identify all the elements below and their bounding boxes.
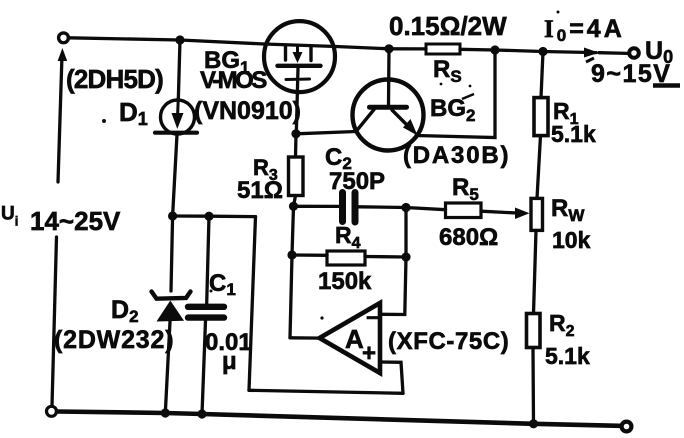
svg-text:+: + bbox=[362, 340, 376, 367]
svg-text:V-MOS: V-MOS bbox=[200, 67, 267, 94]
resistor R5 body 680ohm bbox=[446, 203, 482, 218]
wire: R5 to Rw wiper arrow bbox=[481, 211, 517, 213]
wire: left input rail with up arrow bbox=[58, 55, 62, 182]
wire: BG1 to Rs bbox=[389, 47, 426, 50]
arrow into Rw wiper bbox=[515, 208, 530, 220]
svg-text:680Ω: 680Ω bbox=[439, 224, 498, 251]
stray speck above BG2 label bbox=[440, 83, 443, 86]
node L (D1/D2 junction) bbox=[168, 211, 177, 220]
wire: R2 bottom to ground node O bbox=[531, 348, 535, 424]
stray arrow mark above BG2 label bbox=[462, 94, 474, 99]
wire: op-amp plus input right and down bbox=[380, 362, 403, 393]
wire: node H to R5 bbox=[406, 208, 446, 210]
wire: Rs right to junction C bbox=[460, 48, 495, 52]
wire: node I down and left to op-amp minus input bbox=[382, 257, 406, 315]
zener D2 triangle (anode, pointing up) bbox=[157, 301, 185, 322]
svg-text:750P: 750P bbox=[329, 168, 385, 195]
wire: op-amp output to feedback riser bbox=[290, 336, 321, 340]
wire: R4 right to node I bbox=[365, 255, 406, 259]
stray dot left of D1 bbox=[102, 119, 106, 123]
node junction C (BG2 collector / Rs right) bbox=[490, 45, 499, 54]
wire: BG1 gate lead down to junction E bbox=[296, 68, 298, 134]
node G (R4 left) bbox=[287, 250, 296, 259]
resistor R4 body 150k bbox=[327, 251, 365, 265]
node junction A (top of D1) bbox=[175, 35, 184, 44]
svg-text:5.1k: 5.1k bbox=[545, 343, 590, 369]
BG2 base bar bbox=[370, 105, 407, 110]
svg-text:51Ω: 51Ω bbox=[237, 177, 283, 204]
svg-text:14~25V: 14~25V bbox=[30, 206, 121, 236]
diode D1 body circle bbox=[161, 100, 195, 134]
svg-text:(2DW232): (2DW232) bbox=[54, 326, 174, 354]
svg-text:μ: μ bbox=[222, 348, 237, 375]
wire: BG2 emitter to riser to junction C bbox=[416, 50, 495, 138]
resistor R3 body 51ohm bbox=[289, 157, 304, 196]
op-amp A triangle bbox=[320, 303, 381, 373]
node H (C2/R5/minus-branch junction) bbox=[401, 203, 410, 212]
wire: Rw bottom to R2 top bbox=[534, 231, 537, 314]
svg-text:(2DH5D): (2DH5D) bbox=[66, 64, 163, 94]
wire: arrow to output terminal bbox=[599, 51, 628, 55]
wire: node F to C2 left plate bbox=[294, 205, 339, 208]
wire: plus branch bottom run to the left bbox=[249, 390, 403, 393]
BG1 internal: substrate dashes bbox=[286, 78, 297, 81]
capacitor C1 plates 0.01u bbox=[188, 304, 224, 310]
stray speck left of op-amp bbox=[320, 316, 323, 319]
svg-text:150k: 150k bbox=[318, 268, 372, 295]
wire: ground bus bbox=[57, 412, 620, 426]
node junction D (R1 top) bbox=[538, 47, 547, 56]
resistor Rs body 0.15ohm/2W bbox=[426, 44, 460, 54]
wire: plus branch left riser up to node J bbox=[249, 217, 256, 391]
wire: node H down to node I bbox=[404, 208, 407, 258]
stray speck near 150k bbox=[210, 290, 213, 293]
node O (R2 on ground bus) bbox=[529, 419, 538, 428]
wire: junction E to R3 bbox=[294, 134, 298, 157]
wire: node L down to D2 bbox=[171, 216, 173, 291]
BG1 internal: right gate finger bbox=[309, 46, 312, 61]
svg-text:10k: 10k bbox=[552, 227, 591, 253]
wire: R1 bottom to Rw top bbox=[537, 136, 541, 199]
capacitor C2 plates 750P bbox=[339, 193, 346, 222]
node M (D2 on ground bus) bbox=[161, 408, 170, 417]
stray speck top right bbox=[557, 11, 560, 14]
wire: D2 anode down to ground node M bbox=[165, 322, 170, 414]
potentiometer Rw body 10k bbox=[531, 198, 543, 230]
BG1 internal: middle arrow down bbox=[296, 47, 299, 55]
svg-text:0.15Ω/2W: 0.15Ω/2W bbox=[389, 11, 507, 41]
svg-text:5.1k: 5.1k bbox=[551, 121, 596, 147]
node F (C2 left) bbox=[289, 202, 298, 211]
wire: R3 bottom to node F, node G, down to op-amp output bbox=[290, 196, 296, 338]
resistor R1 body 5.1k bbox=[534, 98, 548, 136]
node junction E (gate / BG2 collector) bbox=[291, 129, 300, 138]
wire: C1 top lead bbox=[207, 216, 209, 303]
transistor BG2 body circle (DA30B) bbox=[353, 80, 424, 151]
wire: D1 cathode down to node L bbox=[173, 135, 177, 217]
node output minus terminal (open circle, bottom right) bbox=[622, 422, 632, 432]
node junction B (BG2 base on top wire) bbox=[384, 44, 393, 53]
underline mark under V bbox=[653, 83, 680, 88]
node K (C1 top) bbox=[204, 212, 213, 221]
node output terminal Uo (open circle) bbox=[629, 48, 639, 58]
arrow to output bbox=[584, 48, 599, 58]
BG1 internal: channel bar bbox=[278, 64, 321, 68]
wire: junction C to junction D bbox=[495, 50, 543, 52]
zener D2 cathode bar with bent tips bbox=[152, 292, 191, 299]
BG2 collector diagonal (to gate node) bbox=[356, 110, 374, 132]
svg-text:(DA30B): (DA30B) bbox=[403, 142, 510, 169]
wire top: input terminal to junction A bbox=[69, 38, 181, 40]
diode D1 cathode bar bbox=[155, 131, 197, 135]
svg-text:(XFC-75C): (XFC-75C) bbox=[388, 328, 509, 355]
wire: node G to R4 bbox=[292, 253, 327, 257]
BG1 internal: left gate finger bbox=[284, 45, 287, 60]
stray tick under output arrow bbox=[586, 58, 594, 62]
wire: BG1 source-drain line across circle bbox=[264, 44, 389, 49]
svg-text:(VN0910): (VN0910) bbox=[194, 97, 301, 125]
BG2 base lead up to junction B bbox=[387, 49, 391, 105]
wire: node J corner to node K (C1 top) to node L on D line bbox=[173, 214, 256, 218]
wire: junction A down to D1 bbox=[178, 40, 180, 100]
diode D1 arrow bbox=[176, 98, 180, 115]
node N (C1 on ground bus) bbox=[197, 409, 206, 418]
BG2 emitter diagonal with arrow bbox=[392, 110, 408, 126]
wire: C2 right plate to node H bbox=[359, 205, 406, 209]
node input minus terminal (open circle, bottom left) bbox=[47, 406, 57, 416]
wire: junction D to output arrow bbox=[543, 52, 596, 53]
wire: C1 bottom lead to ground node N bbox=[202, 321, 206, 414]
wire top: junction A to BG1 gate line bbox=[180, 40, 264, 44]
resistor R2 body 5.1k bbox=[527, 314, 541, 348]
node I (R4 right / minus input) bbox=[401, 252, 410, 261]
svg-text:I0=4A: I0=4A bbox=[544, 15, 625, 45]
wire: junction E to BG2 collector bbox=[296, 132, 356, 134]
wire: junction D down to R1 bbox=[541, 52, 543, 98]
svg-text:−: − bbox=[366, 305, 379, 330]
transistor BG1 V-MOS body circle bbox=[264, 21, 335, 92]
node input terminal (open circle, top left) bbox=[59, 33, 69, 43]
